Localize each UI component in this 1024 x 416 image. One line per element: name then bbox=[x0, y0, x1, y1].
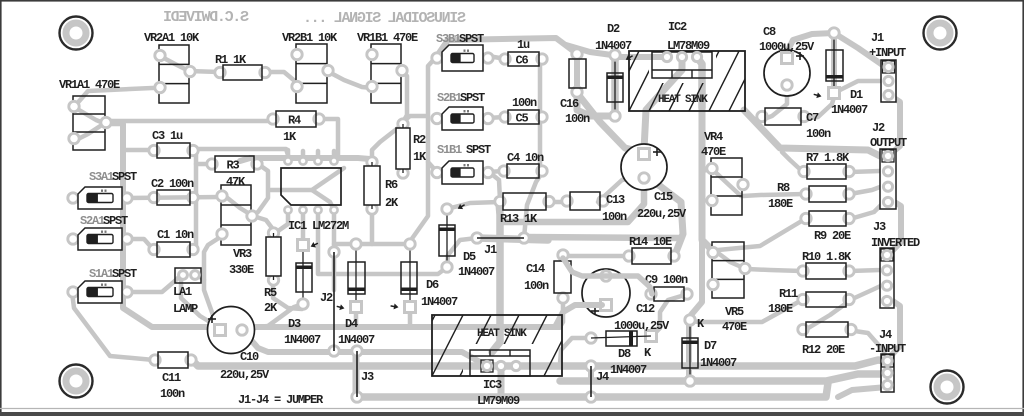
wire: C15 bottom to R14 bbox=[644, 176, 683, 256]
trimmer VR4 bbox=[707, 158, 748, 215]
wire: S3B1 to C6 bbox=[488, 56, 504, 59]
svg-text:J4: J4 bbox=[879, 328, 892, 342]
wire: C11 left diag bbox=[150, 358, 154, 363]
svg-text:C2 100n: C2 100n bbox=[151, 177, 194, 191]
capacitor C11 bbox=[150, 352, 196, 368]
wire: C3 left bbox=[123, 148, 153, 153]
svg-text:D3: D3 bbox=[288, 317, 301, 331]
wire: VR3 to R5 bbox=[253, 216, 273, 231]
resistor R4 bbox=[268, 111, 324, 128]
wire: C8 bottom to C7 bbox=[764, 85, 787, 119]
wire: R14 left to C14/C12 bbox=[563, 255, 628, 256]
wire: VR4 pads left stub bbox=[702, 169, 710, 170]
svg-text:C5: C5 bbox=[516, 112, 529, 126]
trimmer VR1A1 bbox=[69, 96, 111, 150]
svg-text:100n: 100n bbox=[565, 112, 590, 126]
svg-text:VR3: VR3 bbox=[233, 247, 252, 261]
cathode mark D5 bbox=[456, 202, 466, 211]
wire: R12 left diag to R11 right bbox=[805, 302, 848, 330]
wire: R7 left diag up bbox=[782, 152, 803, 172]
svg-text:C10: C10 bbox=[240, 350, 259, 364]
svg-text:K: K bbox=[644, 346, 652, 360]
svg-text:220u,25V: 220u,25V bbox=[220, 368, 270, 382]
wire: under C16 bbox=[574, 55, 580, 90]
svg-text:R11: R11 bbox=[779, 287, 798, 301]
diode D2 bbox=[607, 50, 623, 121]
resistor R13 bbox=[495, 193, 554, 210]
wire: y=352 to IC3 bbox=[362, 352, 487, 366]
resistor R9 bbox=[801, 211, 854, 226]
svg-text:C6: C6 bbox=[516, 54, 529, 68]
wire: C16 pad diag to C15 bbox=[577, 93, 641, 152]
wire: LA1 right bbox=[196, 274, 204, 280]
connector J1 bbox=[881, 60, 896, 102]
copper text SINUSOIDAL SIGNAL (mirrored) bbox=[304, 10, 466, 27]
capacitor C14 bbox=[554, 250, 571, 303]
svg-text:1N4007: 1N4007 bbox=[610, 363, 647, 377]
wire: R11 left to D7 bbox=[689, 300, 802, 322]
switch S1B1 bbox=[432, 161, 493, 184]
heat sink (IC3) bbox=[376, 315, 603, 376]
svg-text:C16: C16 bbox=[560, 97, 579, 111]
switch S2B1 bbox=[432, 107, 493, 130]
wire: R12 right to J4 bbox=[848, 330, 887, 359]
svg-text:1N4007: 1N4007 bbox=[458, 265, 495, 279]
wire: R6 top bbox=[372, 123, 403, 160]
jumper J1 bbox=[472, 233, 529, 243]
wire: bus y=237 J1 to x702 bbox=[524, 237, 681, 238]
svg-text:C15: C15 bbox=[654, 190, 673, 204]
svg-text:R7 1.8K: R7 1.8K bbox=[806, 151, 850, 165]
svg-text:R2: R2 bbox=[413, 133, 426, 147]
svg-text:-INPUT: -INPUT bbox=[869, 342, 906, 356]
svg-text:C1 10n: C1 10n bbox=[157, 228, 194, 242]
wire: C10 to J3 trace y=352 bbox=[243, 331, 352, 352]
svg-text:SPST: SPST bbox=[466, 143, 491, 157]
svg-text:IC3: IC3 bbox=[483, 378, 502, 392]
svg-text:K: K bbox=[697, 317, 705, 331]
wire: C7 right to D1 bottom bbox=[801, 97, 834, 119]
svg-text:R10 1.8K: R10 1.8K bbox=[802, 250, 852, 264]
svg-text:D2: D2 bbox=[607, 22, 620, 36]
wire: J4 pin3 to bus bbox=[838, 387, 887, 397]
svg-text:S2A1: S2A1 bbox=[80, 214, 105, 228]
svg-text:2K: 2K bbox=[385, 196, 399, 210]
capacitor C8 bbox=[764, 50, 810, 96]
svg-text:D7: D7 bbox=[704, 339, 717, 353]
svg-text:470E: 470E bbox=[701, 145, 726, 159]
svg-text:LA1: LA1 bbox=[173, 285, 192, 299]
wire: VR1B1 to R2 bbox=[402, 71, 407, 122]
trimmer VR5 bbox=[708, 242, 750, 298]
jumper J2 bbox=[329, 247, 339, 356]
mounting hole BR bbox=[931, 371, 964, 404]
wire: J1 pin3 down to J2 bbox=[888, 94, 900, 156]
wire: D8 left to bus bbox=[560, 338, 591, 364]
svg-text:J1: J1 bbox=[871, 31, 884, 45]
wire: R6 bottom to D4 bbox=[370, 209, 375, 244]
wire: x=428 down to D6 bbox=[410, 162, 428, 245]
diode D7 bbox=[682, 315, 698, 386]
svg-text:1K: 1K bbox=[413, 150, 427, 164]
wire: C12 square pad feed bbox=[555, 305, 602, 327]
wire: J1 pin2 to D1 bottom bbox=[834, 81, 888, 93]
connector J2 bbox=[880, 149, 896, 209]
svg-text:C8: C8 bbox=[763, 25, 776, 39]
wire: R8 right to J2 bbox=[850, 184, 888, 194]
op-amp IC1 bbox=[281, 157, 341, 213]
svg-text:D8: D8 bbox=[618, 347, 631, 361]
heat sink (IC2) bbox=[589, 51, 779, 111]
svg-text:R8: R8 bbox=[777, 181, 790, 195]
svg-text:100n: 100n bbox=[602, 210, 627, 224]
svg-text:VR1B1 470E: VR1B1 470E bbox=[357, 31, 418, 45]
wire: C6/C5/C4 right bus x=540 bbox=[540, 59, 543, 171]
capacitor C7 bbox=[757, 108, 809, 125]
resistor R14 bbox=[624, 248, 679, 264]
wire: LA1 left down to C10 bbox=[181, 275, 215, 325]
svg-text:1K: 1K bbox=[283, 130, 297, 144]
capacitor C6 bbox=[500, 52, 547, 68]
svg-text:HEAT SINK: HEAT SINK bbox=[477, 328, 527, 340]
wire: IC2 pad3 wide vertical down bbox=[697, 57, 702, 108]
capacitor C13 bbox=[562, 192, 608, 210]
wire: C14 bottom to bus bbox=[560, 298, 563, 327]
wire: S2B1 to C5 bbox=[488, 117, 504, 118]
svg-text:180E: 180E bbox=[768, 302, 793, 316]
svg-text:330E: 330E bbox=[229, 263, 254, 277]
wire: x=428 spur to R2 bbox=[404, 116, 428, 121]
wire: S1B1 right to x500 bbox=[489, 172, 500, 200]
wire: under D1 bbox=[831, 36, 837, 90]
trimmer VR1B1 bbox=[367, 44, 407, 103]
svg-text:J2: J2 bbox=[320, 291, 333, 305]
wire: VR3 bottom to x=204 bbox=[204, 234, 225, 318]
svg-text:1000u,25V: 1000u,25V bbox=[614, 319, 670, 333]
capacitor C1 bbox=[149, 242, 198, 257]
resistor R7 bbox=[799, 164, 854, 179]
wire: J1 jumper wide horizontal bbox=[477, 238, 548, 240]
resistor R1 bbox=[215, 65, 270, 80]
diode D6 bbox=[401, 239, 417, 313]
capacitor C15 bbox=[621, 144, 667, 190]
svg-text:D5: D5 bbox=[463, 250, 476, 264]
diode D8 bbox=[586, 331, 657, 347]
svg-text:D6: D6 bbox=[426, 278, 439, 292]
svg-text:1000u,25V: 1000u,25V bbox=[759, 40, 815, 54]
wire: C3 right vertical bbox=[194, 150, 196, 250]
svg-text:S.C.DWIVEDI: S.C.DWIVEDI bbox=[164, 9, 249, 26]
wire: R5 bottom to D3 bottom bbox=[273, 282, 302, 309]
wire: trace y=121 VR1A1 pad3 to R4 bbox=[74, 121, 272, 141]
wire: D2 top to IC2 pad1 bbox=[615, 54, 667, 60]
svg-text:R13 1K: R13 1K bbox=[500, 212, 538, 226]
svg-text:C12: C12 bbox=[636, 302, 655, 316]
cathode mark D6 bbox=[390, 303, 399, 310]
wire: J4 jumper gray vertical bbox=[588, 366, 594, 381]
svg-text:220u,25V: 220u,25V bbox=[637, 207, 687, 221]
cathode mark D3 bbox=[309, 241, 319, 250]
wire: bus y=381 bbox=[560, 374, 887, 381]
wire: C13 right to C15 pad bbox=[598, 176, 644, 202]
capacitor C2 bbox=[149, 190, 198, 205]
svg-text:1N4007: 1N4007 bbox=[700, 356, 737, 370]
svg-text:1N4007: 1N4007 bbox=[831, 103, 868, 117]
resistor R5 bbox=[266, 228, 281, 285]
wire: heatsink corner to J2 wide bbox=[744, 110, 888, 157]
svg-text:R12 20E: R12 20E bbox=[802, 343, 845, 357]
svg-text:C11: C11 bbox=[162, 371, 181, 385]
svg-text:LAMP: LAMP bbox=[173, 302, 198, 316]
mounting hole TR bbox=[924, 17, 957, 50]
wire: J2 pin4 down to J3 pin1 bbox=[888, 198, 901, 255]
wire: x=428 vertical S-B switches bbox=[428, 56, 437, 172]
wire: IC2 pad2 down to C15 bbox=[644, 57, 682, 150]
wire: IC1 pin stubs bottom bbox=[273, 210, 288, 233]
svg-text:SINUSOIDAL SIGNAL ...: SINUSOIDAL SIGNAL ... bbox=[304, 10, 466, 27]
svg-text:C14: C14 bbox=[526, 262, 545, 276]
capacitor C5 bbox=[500, 110, 547, 126]
svg-text:180E: 180E bbox=[768, 197, 793, 211]
svg-text:100n: 100n bbox=[524, 279, 549, 293]
svg-text:INVERTED: INVERTED bbox=[871, 236, 920, 250]
svg-text:J3: J3 bbox=[361, 370, 374, 384]
svg-text:J1: J1 bbox=[484, 243, 497, 257]
wire: VR4 internal bbox=[712, 169, 741, 196]
trimmer VR3 bbox=[217, 185, 257, 245]
capacitor C9 bbox=[646, 287, 692, 301]
svg-text:SPST: SPST bbox=[112, 170, 137, 184]
cathode mark D2 bbox=[624, 53, 634, 62]
svg-text:1N4007: 1N4007 bbox=[595, 39, 632, 53]
wire: S2A1 to C1 bbox=[128, 239, 153, 250]
wire: C9 right to D8 pad bbox=[653, 294, 688, 335]
svg-text:C7: C7 bbox=[806, 111, 819, 125]
board frame bbox=[0, 0, 1024, 2]
svg-text:J1-J4 = JUMPER: J1-J4 = JUMPER bbox=[238, 393, 324, 407]
switch S3A1 bbox=[68, 187, 132, 209]
transistor IC3 package bbox=[470, 350, 530, 376]
wire: J2 jumper gray under bbox=[332, 252, 337, 290]
lamp LA1 bbox=[175, 268, 201, 283]
svg-text:470E: 470E bbox=[722, 320, 747, 334]
wire: IC3 pad stub bbox=[498, 366, 505, 397]
diode D4 bbox=[348, 239, 365, 313]
wire: IC1 pin stubs top bbox=[286, 150, 291, 161]
svg-text:S3B1: S3B1 bbox=[436, 32, 461, 46]
wire: IC1 wide top bus y=158 bbox=[240, 158, 370, 161]
wire: diagonal IC1 body crossing bbox=[270, 168, 344, 190]
wire: R3 right to VR3 bbox=[254, 164, 268, 214]
cathode mark D1 bbox=[813, 91, 822, 99]
svg-text:R1 1K: R1 1K bbox=[215, 53, 247, 67]
cathode mark D4 bbox=[336, 303, 345, 311]
svg-text:100n: 100n bbox=[160, 387, 185, 401]
wire: VR1A1 pad1 to VR2A1 pad3 bbox=[74, 88, 160, 107]
svg-text:D1: D1 bbox=[850, 88, 863, 102]
svg-text:S1B1: S1B1 bbox=[437, 143, 462, 157]
svg-text:2K: 2K bbox=[264, 301, 278, 315]
diode D3 bbox=[296, 240, 312, 310]
svg-text:100n: 100n bbox=[806, 127, 831, 141]
wire: J3 pin4 down to J4 bbox=[887, 297, 900, 359]
wire: R9 right to J2 pin4 bbox=[850, 198, 888, 219]
wire: bus y=222 R13 to C15 area bbox=[500, 182, 644, 222]
resistor R10 bbox=[798, 263, 854, 279]
diode D1 bbox=[826, 28, 843, 99]
copper text S.C.DWIVEDI (mirrored) bbox=[164, 9, 249, 26]
resistor R3 bbox=[207, 156, 262, 173]
wire: R10 right to J3 bbox=[850, 269, 887, 271]
svg-text:100n: 100n bbox=[512, 96, 537, 110]
wire: S1A1 to LA1 bbox=[128, 275, 181, 292]
wire: VR2A1 internal bbox=[160, 56, 219, 72]
wire: D3/D4/D6 bottom link bbox=[354, 307, 359, 326]
connector J3 bbox=[880, 248, 894, 308]
wire: y=149 horizontal C3 to IC1/R6 bbox=[194, 149, 288, 155]
wire: bus y=397 bbox=[356, 383, 828, 397]
wire: J3 jumper gray under bbox=[353, 352, 360, 397]
wire: top trace S3B1 to C16/D2 bbox=[437, 38, 577, 56]
wire: R13 to C13 bbox=[550, 200, 567, 205]
wire: x=72 switch bus to C11 bbox=[72, 292, 154, 360]
wire: J1 left to D5 bottom bbox=[447, 238, 477, 267]
wire: bus y=366 bbox=[192, 360, 887, 366]
wire: x=702 to VR4 and below bbox=[702, 104, 712, 250]
connector J4 bbox=[881, 354, 894, 392]
svg-text:J2: J2 bbox=[872, 121, 885, 135]
resistor R6 bbox=[364, 157, 380, 214]
svg-text:SPST: SPST bbox=[103, 214, 128, 228]
jumper J4 bbox=[586, 361, 596, 402]
svg-text:SPST: SPST bbox=[112, 267, 137, 281]
svg-text:J4: J4 bbox=[596, 370, 609, 384]
wire: R3 left bbox=[196, 162, 211, 167]
svg-text:S2B1: S2B1 bbox=[437, 91, 462, 105]
wire: S3A1 to C2 to VR3 bbox=[128, 197, 225, 198]
svg-text:R4: R4 bbox=[288, 114, 301, 128]
svg-text:1N4007: 1N4007 bbox=[421, 295, 458, 309]
svg-text:IC1 LM272M: IC1 LM272M bbox=[288, 219, 349, 233]
resistor R2 bbox=[396, 119, 410, 178]
wire: R4 right to IC1 bbox=[320, 119, 338, 158]
capacitor C12 bbox=[582, 269, 630, 317]
switch S3B1 bbox=[432, 45, 493, 71]
svg-text:S3A1: S3A1 bbox=[89, 170, 114, 184]
wire: D2 vertical under body bbox=[611, 55, 619, 116]
wire: VR5 internal bbox=[714, 250, 746, 269]
wire: R1 to VR2B1 bbox=[266, 72, 298, 87]
svg-text:C13: C13 bbox=[606, 193, 625, 207]
svg-text:IC2: IC2 bbox=[668, 20, 687, 34]
capacitor C16 bbox=[569, 49, 586, 97]
capacitor C4 bbox=[499, 164, 547, 178]
trimmer VR2B1 bbox=[292, 44, 333, 103]
wire: x=500 wide vertical bbox=[492, 202, 500, 352]
capacitor C10 bbox=[208, 307, 255, 354]
switch S1A1 bbox=[68, 281, 132, 303]
wire: VR5 right to R10 bbox=[747, 269, 802, 271]
svg-text:OUTPUT: OUTPUT bbox=[870, 136, 907, 150]
svg-text:D4: D4 bbox=[345, 317, 358, 331]
wire: R9 left to VR5 bbox=[714, 219, 805, 250]
wire: S1B1 to C4 bbox=[489, 171, 503, 172]
wire: under D7 bbox=[686, 322, 692, 379]
wire: D1 top to J1 pin1 bbox=[834, 33, 888, 68]
wire: VR1A1 internal to right bus bbox=[74, 107, 123, 124]
wire: D1 top to C8 bbox=[788, 33, 834, 50]
wire: C16 bottom to D2 bottom bbox=[577, 92, 614, 116]
switch S2A1 bbox=[68, 228, 132, 250]
svg-text:VR2A1 10K: VR2A1 10K bbox=[144, 31, 200, 45]
transistor IC2 package bbox=[652, 52, 712, 78]
wire: C12 top pad horizontal bbox=[563, 258, 652, 294]
wire: D5 top to R13 bbox=[447, 202, 499, 209]
svg-text:LM79M09: LM79M09 bbox=[477, 394, 520, 408]
wire: R7 right to J2 bbox=[850, 171, 888, 172]
diode D5 bbox=[439, 204, 455, 272]
wire: C10 to D3 diag bbox=[243, 304, 303, 328]
svg-text:R5: R5 bbox=[264, 286, 277, 300]
svg-text:LM78M09: LM78M09 bbox=[667, 39, 710, 53]
svg-text:R6: R6 bbox=[385, 178, 398, 192]
svg-text:R9 20E: R9 20E bbox=[814, 229, 851, 243]
wire: VR4 right to R8 bbox=[743, 194, 805, 196]
svg-text:R3: R3 bbox=[227, 159, 240, 173]
wire: D5 bottom to D6 bbox=[318, 210, 446, 274]
svg-text:S1A1: S1A1 bbox=[89, 267, 114, 281]
resistor R11 bbox=[798, 292, 854, 307]
jumper J3 bbox=[352, 346, 362, 402]
svg-text:SPST: SPST bbox=[459, 32, 484, 46]
svg-text:C3 1u: C3 1u bbox=[152, 129, 183, 143]
svg-text:SPST: SPST bbox=[460, 91, 485, 105]
capacitor C3 bbox=[149, 143, 198, 158]
wire: R11 right to J3 bbox=[850, 283, 887, 300]
wire: VR2B1 to VR1B1 bbox=[327, 71, 372, 88]
svg-text:VR5: VR5 bbox=[725, 305, 744, 319]
wire: left vertical bus x=123 bbox=[123, 124, 560, 327]
wire: VR3 internal bbox=[225, 196, 253, 216]
svg-text:C4 10n: C4 10n bbox=[507, 151, 544, 165]
svg-text:J3: J3 bbox=[873, 220, 886, 234]
svg-text:+INPUT: +INPUT bbox=[869, 46, 906, 60]
svg-text:47K: 47K bbox=[226, 175, 246, 189]
svg-text:1N4007: 1N4007 bbox=[284, 333, 321, 347]
svg-text:VR4: VR4 bbox=[704, 130, 723, 144]
mounting hole TL bbox=[60, 17, 93, 50]
resistor R8 bbox=[801, 186, 854, 202]
svg-text:VR2B1 10K: VR2B1 10K bbox=[282, 31, 338, 45]
mounting hole BL bbox=[60, 365, 93, 398]
resistor R12 bbox=[798, 322, 856, 337]
svg-text:VR1A1 470E: VR1A1 470E bbox=[59, 78, 120, 92]
svg-text:HEAT SINK: HEAT SINK bbox=[658, 94, 708, 106]
svg-text:R14 10E: R14 10E bbox=[629, 235, 672, 249]
svg-text:1u: 1u bbox=[517, 38, 530, 52]
wire: C4 right to J1 area bbox=[524, 171, 543, 238]
trimmer VR2A1 bbox=[155, 45, 195, 103]
